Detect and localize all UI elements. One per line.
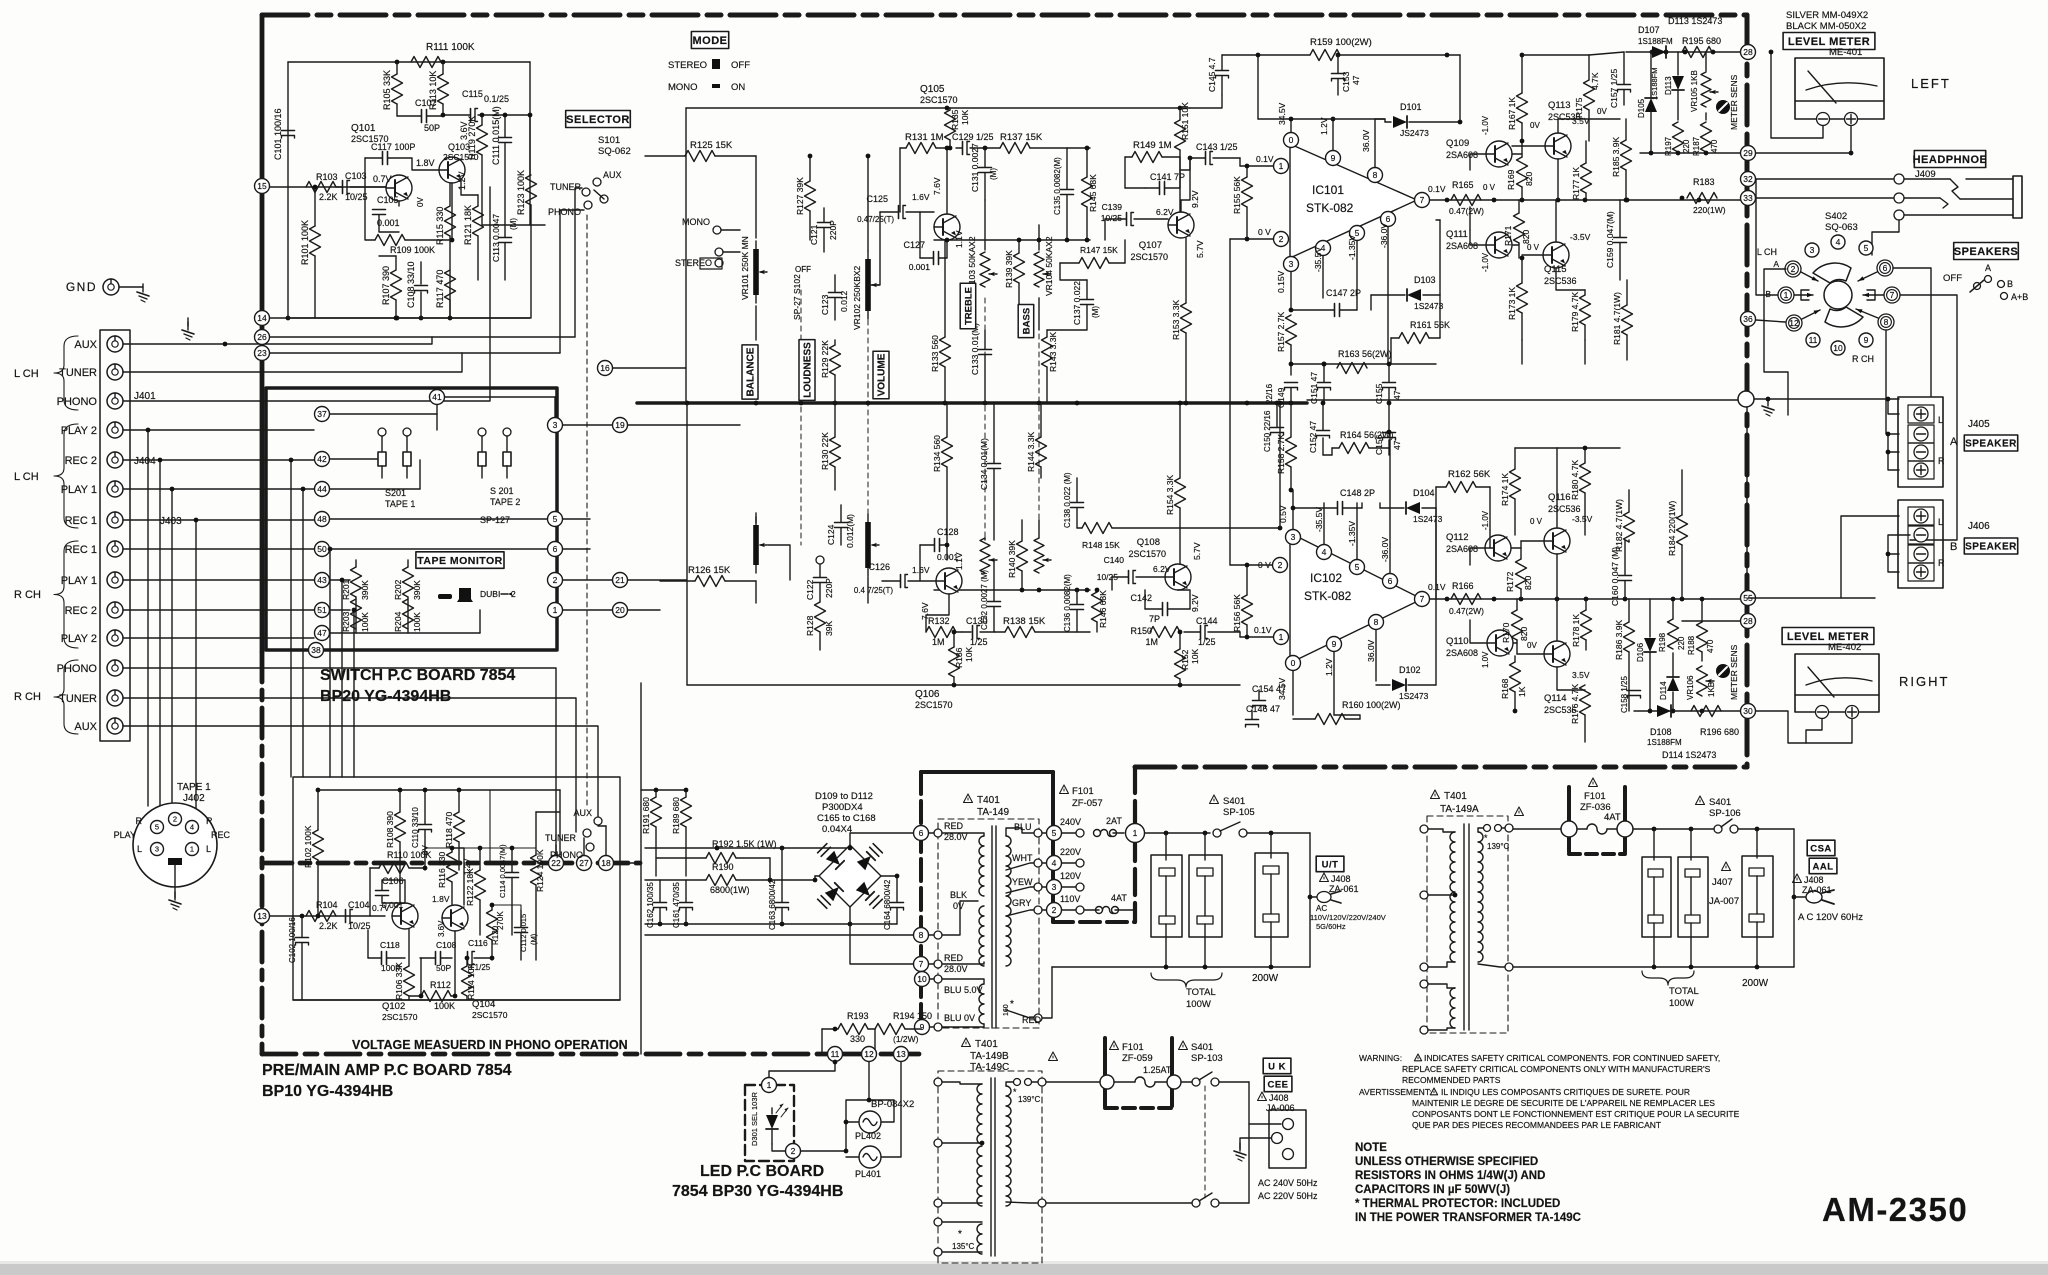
svg-text:C162 100/35: C162 100/35 bbox=[646, 882, 655, 928]
label J409 bbox=[1915, 169, 1936, 180]
resistor R165 0.47 2W bbox=[1449, 180, 1484, 216]
svg-text:A: A bbox=[1985, 263, 1991, 273]
label SQ-062 bbox=[598, 146, 631, 157]
svg-text:IN THE POWER TRANSFORMER T: IN THE POWER TRANSFORMER TA-149C bbox=[1355, 1212, 1581, 1224]
resistor R187 470 bbox=[1692, 122, 1719, 156]
svg-text:C143 1/25: C143 1/25 bbox=[1196, 142, 1238, 152]
svg-text:C163 6800/42: C163 6800/42 bbox=[768, 879, 777, 930]
svg-text:R115 330: R115 330 bbox=[435, 207, 445, 245]
svg-text:-3.5V: -3.5V bbox=[1570, 232, 1591, 242]
svg-text:470: 470 bbox=[1706, 639, 1715, 653]
svg-text:C161 470/35: C161 470/35 bbox=[672, 882, 681, 928]
svg-text:10: 10 bbox=[1833, 343, 1843, 353]
label 36.0V ic102 bbox=[1366, 639, 1376, 662]
wire meter ME-402 leads bbox=[1756, 711, 1852, 743]
transformer TA-149 label bbox=[964, 794, 1010, 818]
svg-text:RIGHT: RIGHT bbox=[1899, 674, 1949, 689]
wire q113 base bbox=[1522, 145, 1545, 147]
svg-text:RED: RED bbox=[944, 953, 964, 963]
svg-text:R135: R135 bbox=[950, 109, 960, 130]
svg-text:11: 11 bbox=[831, 1049, 840, 1059]
svg-text:C159 0.047(M): C159 0.047(M) bbox=[1605, 211, 1615, 268]
tape1 shield contact bbox=[168, 858, 182, 898]
svg-text:R182 4.7(1W): R182 4.7(1W) bbox=[1614, 499, 1624, 552]
node 18 bbox=[599, 856, 614, 871]
capacitor C114 0.0047M bbox=[498, 844, 519, 935]
resistor R104 2.2K bbox=[306, 900, 338, 931]
wire selector phono feed bbox=[560, 210, 584, 353]
svg-text:*: * bbox=[1010, 999, 1014, 1010]
svg-text:-1.0V: -1.0V bbox=[1481, 115, 1490, 135]
svg-text:110V/120V/220V/240V: 110V/120V/220V/240V bbox=[1310, 913, 1386, 922]
resistor R169 820 bbox=[1506, 139, 1534, 200]
label 1.1V q106 bbox=[954, 552, 964, 570]
svg-text:10K: 10K bbox=[960, 110, 970, 125]
svg-text:R136: R136 bbox=[954, 647, 964, 668]
label LEVEL METER box lower bbox=[1782, 628, 1874, 645]
svg-text:39K: 39K bbox=[824, 621, 834, 636]
svg-text:R138 15K: R138 15K bbox=[1003, 616, 1046, 627]
svg-text:R143 3.3K: R143 3.3K bbox=[1048, 332, 1058, 372]
svg-text:JA-006: JA-006 bbox=[1266, 1103, 1295, 1113]
svg-text:-1.0V: -1.0V bbox=[1481, 252, 1490, 272]
svg-text:TA-149B: TA-149B bbox=[970, 1051, 1009, 1062]
input jack REC 2 y=610 bbox=[65, 602, 123, 618]
svg-text:33: 33 bbox=[1743, 193, 1753, 203]
resistor R154 3.3K bbox=[1165, 401, 1186, 564]
wire tape jack run y=549 bbox=[123, 548, 314, 550]
capacitor C154 47 bbox=[1252, 684, 1286, 708]
arrow pin6 bbox=[1858, 272, 1877, 281]
capacitor C108b 50P bbox=[420, 940, 457, 973]
warn triangle TA-149A bbox=[1515, 807, 1524, 816]
svg-text:SP-103: SP-103 bbox=[1191, 1053, 1223, 1064]
svg-text:Q116: Q116 bbox=[1548, 492, 1571, 503]
svg-text:LED P.C BOARD: LED P.C BOARD bbox=[700, 1163, 824, 1180]
resistor R155 56K bbox=[1232, 166, 1253, 239]
svg-text:TREBLE: TREBLE bbox=[963, 287, 974, 325]
capacitor C129 1/25 bbox=[952, 132, 994, 155]
svg-text:C154 47: C154 47 bbox=[1252, 684, 1286, 694]
svg-text:50P: 50P bbox=[436, 963, 451, 973]
svg-text:(M): (M) bbox=[989, 168, 998, 180]
svg-text:C139: C139 bbox=[1102, 202, 1123, 212]
svg-text:* THERMAL PROTECTOR: INCLUDED: * THERMAL PROTECTOR: INCLUDED bbox=[1355, 1198, 1560, 1210]
thermal mark 135C bbox=[952, 1229, 975, 1251]
svg-text:CAPACITORS IN µF 50WV(J): CAPACITORS IN µF 50WV(J) bbox=[1355, 1184, 1510, 1196]
svg-text:(M): (M) bbox=[1091, 306, 1100, 318]
svg-text:AVERTISSEMENT:: AVERTISSEMENT: bbox=[1359, 1087, 1431, 1097]
svg-text:50P: 50P bbox=[424, 123, 440, 133]
resistor R190 6800 1W bbox=[645, 862, 772, 895]
input jack PLAY 2 y=430 bbox=[61, 422, 123, 438]
svg-text:L CH: L CH bbox=[1757, 247, 1777, 257]
resistor R102 100K bbox=[303, 788, 324, 919]
node 12 bbox=[862, 1047, 877, 1062]
svg-text:2SA608: 2SA608 bbox=[1446, 648, 1478, 658]
wire preamp2 top rail bbox=[318, 789, 560, 791]
terminal J406 L+ bbox=[1908, 507, 1943, 527]
label S 201 TAPE 2 bbox=[490, 486, 520, 507]
svg-text:41: 41 bbox=[432, 392, 442, 402]
svg-text:C153: C153 bbox=[1341, 71, 1351, 92]
svg-text:220: 220 bbox=[1682, 139, 1691, 153]
svg-text:R160 100(2W): R160 100(2W) bbox=[1342, 700, 1401, 710]
svg-text:1S188FM: 1S188FM bbox=[1647, 738, 1682, 747]
pin 10 s402 bbox=[1831, 341, 1845, 355]
resistor R164 56 2W bbox=[1323, 430, 1394, 455]
wire aux-r run bbox=[123, 726, 598, 821]
capacitor C140 10/25 bbox=[1097, 555, 1165, 590]
resistor R107 390 bbox=[379, 256, 402, 320]
label SPEAKER box A bbox=[1964, 435, 2017, 451]
svg-text:12: 12 bbox=[864, 1049, 874, 1059]
svg-text:BLACK MM-050X2: BLACK MM-050X2 bbox=[1786, 21, 1866, 32]
svg-text:-1.0V: -1.0V bbox=[1481, 510, 1490, 530]
label AC 120V 60Hz bbox=[1798, 912, 1863, 923]
node 9 power bbox=[915, 1020, 930, 1035]
svg-text:7: 7 bbox=[919, 959, 924, 969]
svg-text:U/T: U/T bbox=[1322, 859, 1339, 870]
wire bridge to node6 bbox=[848, 833, 913, 850]
pin 7 ic102 bbox=[1415, 592, 1430, 607]
label SPEAKER box B bbox=[1964, 538, 2017, 554]
meter ME-401 body bbox=[1795, 58, 1884, 119]
wire lamp circuit bbox=[844, 1062, 901, 1157]
label TREBLE box bbox=[960, 283, 976, 329]
label SP-27 S102 bbox=[792, 274, 802, 320]
label HEADPHNOE box bbox=[1913, 151, 1988, 168]
svg-text:100K: 100K bbox=[360, 612, 370, 632]
svg-text:S101: S101 bbox=[598, 135, 620, 146]
svg-text:1M: 1M bbox=[1145, 637, 1158, 647]
capacitor C149 22/16 bbox=[1265, 383, 1298, 409]
wire lower sense bottom rail bbox=[1634, 709, 1740, 714]
svg-text:R139 39K: R139 39K bbox=[1004, 250, 1014, 288]
resistor R140 39K bbox=[1007, 520, 1028, 590]
svg-text:VR104 50KAX2: VR104 50KAX2 bbox=[1044, 236, 1054, 296]
label AC 240V 50Hz bbox=[1258, 1178, 1318, 1188]
svg-text:9: 9 bbox=[1331, 153, 1336, 163]
svg-text:220V: 220V bbox=[1060, 847, 1081, 857]
svg-text:J408: J408 bbox=[1269, 1093, 1289, 1103]
label L CH s402 bbox=[1757, 247, 1777, 257]
label 1.2V ic101 bbox=[1319, 117, 1329, 135]
voltage selector card 2 export bbox=[1678, 857, 1708, 937]
svg-text:1: 1 bbox=[1279, 632, 1284, 642]
label AVERTISSEMENT text bbox=[1359, 1087, 1740, 1130]
potentiometer VR105 1KB bbox=[1690, 52, 1718, 120]
arrow pin8 bbox=[1856, 309, 1878, 318]
node 29 bbox=[1741, 146, 1756, 161]
svg-text:RESISTORS IN OHMS 1/4W(J) AN: RESISTORS IN OHMS 1/4W(J) AND bbox=[1355, 1170, 1545, 1182]
svg-text:R193: R193 bbox=[847, 1011, 869, 1021]
svg-text:0.1V: 0.1V bbox=[1256, 154, 1274, 164]
svg-text:NOTE: NOTE bbox=[1355, 1142, 1387, 1154]
wire r190 to bridge bbox=[770, 879, 815, 881]
wire ic101 pin6 down bbox=[1387, 227, 1389, 364]
svg-text:R190: R190 bbox=[712, 862, 734, 872]
pin 5 tape1 bbox=[136, 816, 164, 834]
svg-text:0.1V: 0.1V bbox=[1254, 625, 1272, 635]
svg-text:AUX: AUX bbox=[74, 339, 97, 351]
wire preamp2 out bbox=[490, 790, 560, 910]
capacitor C128 0.001 bbox=[920, 527, 959, 581]
svg-text:R146 68K: R146 68K bbox=[1098, 590, 1108, 628]
wire power board border top bbox=[921, 770, 1053, 774]
resistor R114 10K bbox=[462, 956, 477, 1000]
svg-text:R161 56K: R161 56K bbox=[1410, 320, 1450, 330]
wire node29 to meter bbox=[1756, 152, 1851, 154]
svg-text:2SC1570: 2SC1570 bbox=[472, 1010, 508, 1020]
svg-text:23: 23 bbox=[257, 348, 267, 358]
switch S201 tape1 poles bbox=[378, 428, 411, 452]
wire q114 emitter down bbox=[1557, 667, 1585, 690]
capacitor C153 47 bbox=[1332, 55, 1362, 95]
wire ic101 pin4 down bbox=[1322, 256, 1324, 298]
svg-text:STK-082: STK-082 bbox=[1304, 589, 1352, 603]
fuse F101 ZF-036 cage bbox=[1569, 787, 1625, 854]
svg-text:SWITCH P.C BOARD 7854: SWITCH P.C BOARD 7854 bbox=[320, 667, 515, 684]
switch speakers legend bbox=[1943, 263, 2028, 302]
transformer TA-149B box bbox=[938, 1071, 1042, 1263]
svg-text:D101: D101 bbox=[1400, 102, 1422, 112]
svg-text:38: 38 bbox=[311, 645, 321, 655]
svg-text:0.012(M): 0.012(M) bbox=[845, 514, 855, 548]
svg-text:2SC536: 2SC536 bbox=[1544, 276, 1577, 286]
svg-text:2SA608: 2SA608 bbox=[1446, 241, 1478, 251]
wire q116 collector up bbox=[1556, 448, 1558, 528]
svg-text:*: * bbox=[958, 1229, 962, 1240]
svg-text:SP-106: SP-106 bbox=[1709, 808, 1741, 819]
wire selector link dashed bbox=[586, 215, 588, 808]
wire export card bottoms bbox=[1654, 922, 1757, 967]
svg-text:R196 680: R196 680 bbox=[1700, 727, 1739, 737]
resistor R123 100K bbox=[516, 113, 537, 318]
svg-text:Q115: Q115 bbox=[1544, 264, 1567, 275]
svg-text:VR101 250K MN: VR101 250K MN bbox=[740, 236, 750, 300]
wire bottom-right chassis border bbox=[1135, 765, 1747, 770]
svg-text:1.25AT: 1.25AT bbox=[1143, 1065, 1172, 1075]
wire bundle to tape DIN bbox=[146, 428, 199, 810]
svg-text:1S188FM: 1S188FM bbox=[1638, 37, 1673, 46]
label BP-084X2 bbox=[871, 1099, 914, 1110]
op-amp IC102 STK-082 bbox=[1290, 533, 1422, 663]
input jack REC 1 y=549 bbox=[65, 541, 123, 557]
potentiometer VR103 treble upper bbox=[967, 200, 997, 296]
svg-text:R102 100K: R102 100K bbox=[303, 825, 313, 868]
resistor R178 1K bbox=[1571, 599, 1592, 650]
svg-text:820: 820 bbox=[1524, 172, 1534, 186]
svg-text:R150: R150 bbox=[1130, 626, 1152, 636]
resistor R109 100K bbox=[365, 183, 454, 255]
label D113 1S2473 bbox=[1668, 16, 1722, 26]
svg-text:REC 1: REC 1 bbox=[65, 544, 97, 556]
label 0V pin2 bbox=[1258, 227, 1271, 237]
wire q111 net bbox=[1470, 230, 1519, 245]
wire ic102 pin3 up bbox=[1292, 490, 1294, 529]
node 33 bbox=[1741, 191, 1756, 206]
transformer TA-149A right coil bbox=[1478, 832, 1483, 962]
svg-text:RED: RED bbox=[1022, 1015, 1042, 1025]
transistor Q109 2SA608 bbox=[1446, 138, 1512, 167]
svg-text:6800(1W): 6800(1W) bbox=[710, 885, 750, 895]
svg-text:TOTAL: TOTAL bbox=[1186, 987, 1216, 998]
svg-text:R140 39K: R140 39K bbox=[1007, 540, 1017, 578]
label 6.2V q108 bbox=[1153, 564, 1171, 574]
svg-text:1.2V: 1.2V bbox=[1324, 658, 1334, 676]
wire s402 loop right8 bbox=[1886, 330, 1899, 434]
label S101 bbox=[598, 135, 620, 146]
svg-text:C128: C128 bbox=[937, 527, 959, 537]
voltage select contacts bbox=[1062, 829, 1084, 914]
resistor R186 3.9K bbox=[1614, 599, 1635, 711]
wire q113 emitter down bbox=[1557, 159, 1559, 200]
svg-text:R126 15K: R126 15K bbox=[688, 565, 731, 576]
svg-text:ZF-059: ZF-059 bbox=[1122, 1053, 1153, 1064]
pin 7 ic101 bbox=[1415, 193, 1430, 208]
wire left chassis border lower bbox=[260, 652, 265, 1054]
svg-text:-35.5V: -35.5V bbox=[1313, 247, 1323, 272]
svg-text:R173 1K: R173 1K bbox=[1507, 287, 1517, 320]
svg-text:3: 3 bbox=[1291, 532, 1296, 542]
svg-text:0V: 0V bbox=[416, 197, 425, 207]
svg-text:4: 4 bbox=[1052, 858, 1057, 868]
node 10 power bbox=[915, 972, 930, 987]
svg-text:F101: F101 bbox=[1072, 786, 1094, 797]
plug AC U/T bbox=[1310, 891, 1341, 903]
capacitor C123 0.012 bbox=[820, 275, 849, 320]
capacitor C115 0.1/25 bbox=[441, 89, 530, 122]
meter ME-402 terminals bbox=[1816, 706, 1859, 719]
wire ic102 pin8 down bbox=[1375, 630, 1377, 681]
svg-text:R204: R204 bbox=[393, 611, 403, 632]
svg-text:36.0V: 36.0V bbox=[1361, 129, 1371, 152]
svg-text:TUNER: TUNER bbox=[59, 367, 97, 379]
svg-text:PHONO: PHONO bbox=[550, 850, 583, 860]
svg-text:ME-402: ME-402 bbox=[1828, 642, 1861, 653]
wire meter sens bottom rail bbox=[1640, 151, 1747, 156]
wire y337 run bbox=[270, 336, 575, 338]
resistor R177 1K bbox=[1571, 141, 1592, 200]
wire left lower vertical bbox=[686, 403, 688, 685]
arrow pin1 bbox=[1794, 293, 1813, 297]
op-amp IC101 STK-082 bbox=[1290, 144, 1417, 258]
label AC voltages UT bbox=[1310, 904, 1386, 931]
svg-text:200W: 200W bbox=[1252, 973, 1279, 984]
svg-text:R116 330: R116 330 bbox=[437, 851, 447, 888]
svg-text:0V: 0V bbox=[953, 901, 964, 911]
transformer TA-149B label bbox=[962, 1038, 1010, 1073]
svg-text:YEW: YEW bbox=[1012, 877, 1033, 887]
transistor Q108 bbox=[1128, 537, 1191, 590]
wire q105 collector bbox=[945, 146, 950, 214]
wire led to node2 bbox=[772, 1144, 785, 1151]
input jack PHONO y=401 bbox=[57, 393, 123, 409]
pin 3 ic101 bbox=[1284, 257, 1299, 272]
input jack REC 1 y=520 bbox=[65, 512, 123, 528]
switch S101b contact PHONO bbox=[550, 843, 594, 860]
svg-text:C101 100/16: C101 100/16 bbox=[273, 108, 283, 160]
label 1.0V q110 bbox=[1481, 651, 1490, 668]
resistor R138 15K bbox=[995, 616, 1090, 638]
connector J405 block bbox=[1898, 397, 1943, 487]
voltage selector card 3 export bbox=[1742, 856, 1773, 937]
svg-text:5: 5 bbox=[1355, 562, 1360, 572]
pin 11 s402 bbox=[1806, 333, 1820, 347]
capacitor C162 100/35 bbox=[646, 880, 667, 928]
svg-text:0.47/25(T): 0.47/25(T) bbox=[857, 215, 894, 224]
label 9.2V q108 bbox=[1190, 594, 1200, 612]
warn triangle mid bbox=[1049, 1052, 1058, 1061]
wire y353 run bbox=[270, 352, 560, 354]
node 0 rail ic101 bbox=[1258, 117, 1385, 132]
svg-text:4.7K: 4.7K bbox=[1590, 72, 1600, 90]
svg-text:1S2473: 1S2473 bbox=[1414, 301, 1444, 311]
node 3 bbox=[548, 418, 563, 433]
svg-text:R184 220(1W): R184 220(1W) bbox=[1667, 501, 1677, 556]
resistor R158 2.7K bbox=[1276, 403, 1297, 492]
capacitor C137 0.022M bbox=[1047, 263, 1100, 330]
svg-text:34.5V: 34.5V bbox=[1277, 102, 1287, 125]
wire node36 to s402 bbox=[1756, 320, 1785, 322]
pin 9 s402 bbox=[1859, 333, 1873, 347]
resistor R172 820 bbox=[1505, 548, 1533, 599]
resistor R192b region wires bbox=[489, 790, 491, 863]
svg-text:R134 560: R134 560 bbox=[932, 435, 942, 472]
wire phono-l run bbox=[123, 187, 490, 401]
resistor R139 39K bbox=[1004, 240, 1025, 310]
svg-text:160: 160 bbox=[1003, 1004, 1010, 1016]
svg-text:C164 6800/42: C164 6800/42 bbox=[883, 879, 892, 930]
resistor R122 18K bbox=[465, 848, 486, 935]
svg-text:0 V: 0 V bbox=[1483, 183, 1496, 192]
resistor R126 15K bbox=[660, 565, 756, 587]
resistor R204 100K bbox=[393, 599, 422, 632]
svg-text:R172: R172 bbox=[1505, 571, 1515, 592]
wire ic101 pin5 down bbox=[1356, 241, 1358, 298]
resistor R175 4.7K bbox=[1574, 55, 1600, 141]
svg-text:R121 18K: R121 18K bbox=[463, 205, 473, 245]
svg-text:5: 5 bbox=[155, 823, 159, 832]
wire switchboard inner runs bbox=[330, 397, 555, 633]
svg-text:R174 1K: R174 1K bbox=[1500, 473, 1510, 506]
svg-text:B: B bbox=[1950, 541, 1957, 553]
wire node33 headphone bbox=[1756, 197, 1893, 199]
node 32 bbox=[1741, 172, 1756, 187]
node 37 bbox=[315, 407, 330, 422]
label 200W export bbox=[1742, 978, 1769, 989]
node 2 led bbox=[786, 1144, 801, 1159]
svg-text:0.1/25: 0.1/25 bbox=[484, 94, 509, 104]
svg-text:2: 2 bbox=[791, 1146, 796, 1156]
svg-text:1.8V: 1.8V bbox=[432, 894, 450, 904]
wire headphone common bbox=[1872, 220, 1899, 255]
svg-text:ZF-057: ZF-057 bbox=[1072, 798, 1103, 809]
wire tape jack run y=520 bbox=[123, 519, 314, 521]
node 48 bbox=[315, 512, 330, 527]
label R CH s402 bbox=[1852, 354, 1874, 364]
transformer TA-149 box bbox=[938, 819, 1039, 1028]
wire q109 emitter net bbox=[1470, 146, 1522, 170]
svg-text:26: 26 bbox=[257, 332, 267, 342]
terminal J406 R+ bbox=[1908, 563, 1934, 581]
svg-text:1: 1 bbox=[1784, 290, 1789, 300]
svg-text:0 V: 0 V bbox=[1530, 517, 1543, 526]
diode D106 bbox=[1636, 599, 1656, 711]
svg-text:R191 680: R191 680 bbox=[641, 797, 651, 834]
voltage selector card 2 bbox=[1189, 855, 1222, 937]
